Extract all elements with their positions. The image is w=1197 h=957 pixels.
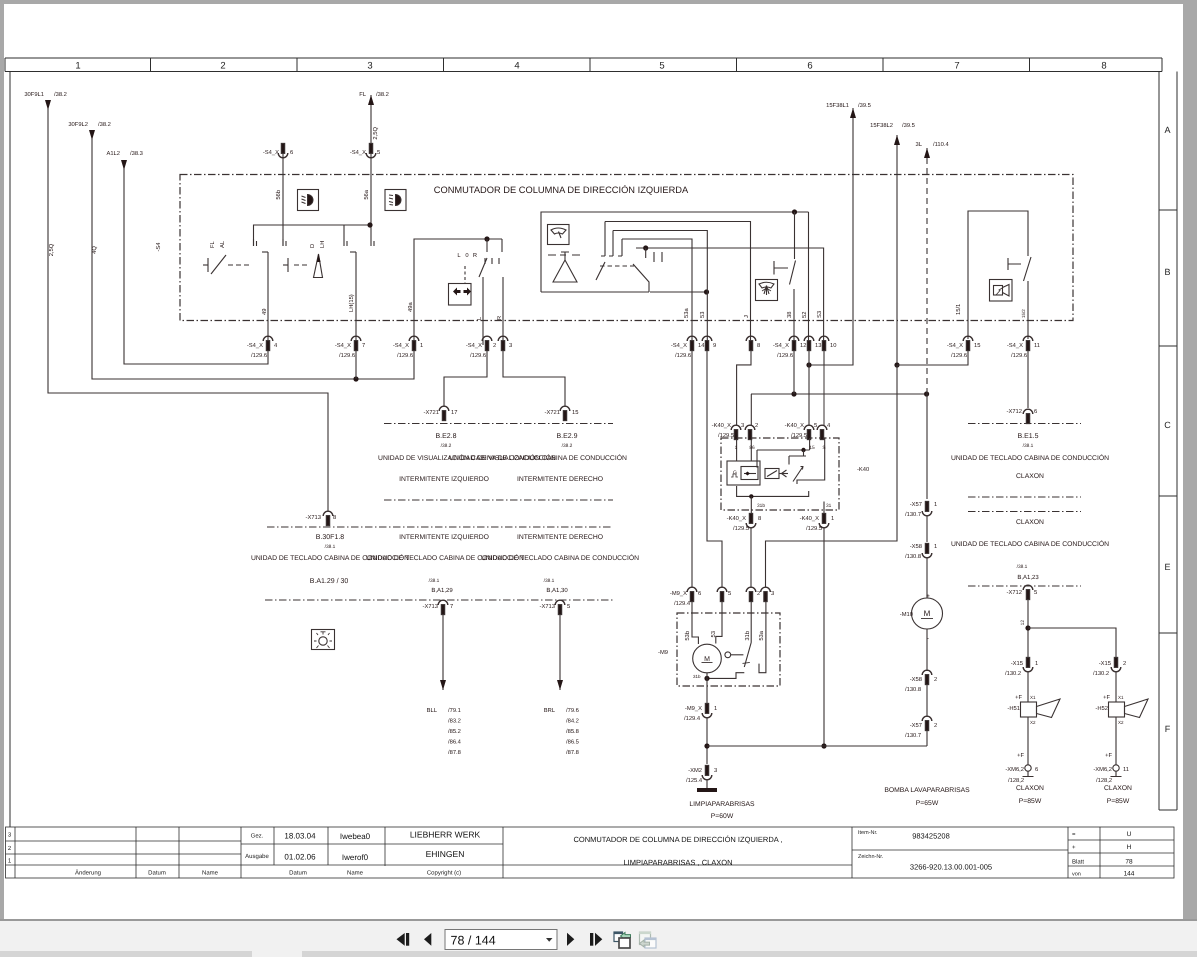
svg-text:+F: +F (1017, 753, 1024, 759)
svg-text:/38.1: /38.1 (325, 544, 336, 550)
svg-text:INTERMITENTE DERECHO: INTERMITENTE DERECHO (517, 476, 603, 483)
svg-text:-S4_X: -S4_X (393, 342, 409, 349)
svg-text:15/1: 15/1 (955, 304, 962, 315)
svg-text:B,A1,23: B,A1,23 (1017, 574, 1039, 581)
svg-text:INTERMITENTE DERECHO: INTERMITENTE DERECHO (517, 534, 603, 541)
svg-text:2,5Q: 2,5Q (372, 127, 379, 140)
svg-text:7: 7 (450, 604, 453, 610)
svg-text:15: 15 (809, 445, 815, 451)
svg-text:LIMPIAPARABRISAS , CLAXON: LIMPIAPARABRISAS , CLAXON (623, 858, 732, 867)
svg-text:Iwerof0: Iwerof0 (342, 853, 369, 862)
svg-text:52: 52 (801, 312, 808, 318)
svg-text:FL: FL (359, 92, 367, 98)
svg-text:-K40_X: -K40_X (712, 422, 731, 429)
svg-text:/38.1: /38.1 (544, 578, 555, 584)
svg-text:BRL: BRL (544, 708, 556, 714)
svg-text:/129.4: /129.4 (684, 715, 701, 722)
svg-text:10: 10 (830, 342, 836, 349)
svg-text:7: 7 (362, 343, 365, 349)
svg-text:5: 5 (1034, 590, 1037, 596)
svg-text:S: S (822, 445, 825, 451)
svg-text:UNIDAD DE VISUALIZACIÓN CABINA: UNIDAD DE VISUALIZACIÓN CABINA DE CONDUC… (449, 454, 627, 462)
svg-text:/39.5: /39.5 (902, 122, 915, 129)
svg-text:-S4_X: -S4_X (350, 149, 366, 156)
svg-text:11: 11 (1123, 767, 1129, 773)
svg-text:U: U (1127, 831, 1132, 838)
svg-text:983425208: 983425208 (912, 832, 950, 841)
svg-text:LIEBHERR WERK: LIEBHERR WERK (410, 830, 481, 840)
svg-text:53: 53 (699, 312, 706, 318)
svg-text:8: 8 (1101, 61, 1106, 72)
svg-text:/38.1: /38.1 (1023, 443, 1034, 449)
svg-text:78 / 144: 78 / 144 (451, 934, 496, 948)
svg-text:-X713: -X713 (306, 514, 321, 521)
svg-text:/129.6: /129.6 (339, 352, 355, 359)
svg-text:6: 6 (698, 590, 701, 597)
svg-text:/129.6: /129.6 (1011, 352, 1027, 359)
svg-text:+: + (926, 593, 930, 600)
svg-text:56a: 56a (363, 189, 370, 199)
svg-text:6: 6 (807, 61, 812, 72)
svg-text:4Q: 4Q (91, 246, 98, 254)
svg-text:3L: 3L (916, 141, 923, 148)
svg-text:/38.1: /38.1 (1017, 564, 1028, 570)
svg-text:/130.2: /130.2 (1005, 670, 1021, 677)
svg-text:5: 5 (814, 423, 817, 429)
svg-text:/83.2: /83.2 (448, 718, 461, 725)
svg-text:-X721: -X721 (424, 409, 439, 416)
svg-text:1: 1 (831, 516, 834, 522)
svg-text:1: 1 (420, 343, 423, 349)
svg-text:38: 38 (786, 312, 793, 318)
svg-text:-H51: -H51 (1007, 706, 1020, 712)
svg-text:2: 2 (934, 722, 937, 729)
svg-text:3266-920.13.00.001-005: 3266-920.13.00.001-005 (910, 863, 992, 872)
svg-text:A: A (1164, 125, 1170, 135)
svg-text:B: B (1164, 267, 1170, 277)
svg-text:11: 11 (1034, 343, 1040, 349)
svg-text:-X58: -X58 (910, 543, 922, 550)
svg-text:18.03.04: 18.03.04 (284, 832, 316, 841)
svg-text:Datum: Datum (148, 870, 166, 877)
svg-text:/38.1: /38.1 (429, 578, 440, 584)
svg-text:-XM2: -XM2 (688, 767, 702, 774)
svg-text:14: 14 (698, 343, 705, 349)
svg-text:/39.5: /39.5 (858, 102, 871, 109)
svg-text:53: 53 (710, 631, 717, 637)
svg-text:/129.4: /129.4 (674, 600, 691, 607)
svg-text:5: 5 (567, 604, 570, 610)
svg-text:2: 2 (934, 676, 937, 683)
svg-text:15: 15 (974, 343, 980, 349)
svg-text:/87.8: /87.8 (448, 749, 461, 756)
svg-text:31: 31 (826, 503, 832, 509)
svg-text:-K40_X: -K40_X (785, 422, 804, 429)
svg-text:-X712: -X712 (1007, 408, 1022, 415)
svg-text:1: 1 (735, 445, 738, 451)
svg-text:49: 49 (261, 309, 268, 315)
svg-text:/85.2: /85.2 (448, 728, 461, 735)
svg-text:-X712: -X712 (1007, 589, 1022, 596)
svg-text:3: 3 (741, 422, 744, 429)
svg-text:Iwebea0: Iwebea0 (340, 832, 371, 841)
svg-text:/129.5: /129.5 (791, 432, 807, 439)
svg-text:F: F (1165, 724, 1171, 734)
svg-text:1: 1 (75, 61, 80, 72)
svg-text:-M9_X: -M9_X (670, 590, 687, 597)
svg-text:/38.2: /38.2 (376, 91, 389, 98)
svg-text:B.A1.29 / 30: B.A1.29 / 30 (310, 577, 349, 585)
svg-text:2: 2 (220, 61, 225, 72)
svg-text:X2: X2 (1030, 720, 1036, 725)
svg-text:-M10: -M10 (900, 611, 913, 618)
svg-text:12: 12 (1020, 620, 1026, 626)
svg-text:17: 17 (451, 410, 457, 416)
svg-text:B.30F1.8: B.30F1.8 (316, 534, 345, 541)
svg-text:-X58: -X58 (910, 676, 922, 683)
svg-text:+F: +F (1103, 695, 1110, 701)
svg-text:/130.7: /130.7 (905, 732, 921, 739)
svg-text:-X15: -X15 (1011, 661, 1023, 667)
svg-text:B,A1,30: B,A1,30 (546, 587, 568, 594)
svg-text:INTERMITENTE IZQUIERDO: INTERMITENTE IZQUIERDO (399, 534, 489, 541)
svg-text:Item-Nr.: Item-Nr. (858, 830, 878, 836)
svg-text:1: 1 (934, 502, 937, 508)
svg-text:/129.5: /129.5 (718, 432, 734, 439)
svg-text:EHINGEN: EHINGEN (426, 849, 465, 859)
svg-text:-XM6,2: -XM6,2 (1005, 766, 1024, 773)
svg-text:49a: 49a (407, 302, 414, 312)
svg-text:31b: 31b (744, 631, 751, 641)
svg-text:30F9L1: 30F9L1 (24, 91, 44, 98)
svg-text:UNIDAD DE TECLADO CABINA DE CO: UNIDAD DE TECLADO CABINA DE CONDUCCIÓN (481, 554, 639, 562)
svg-text:8: 8 (333, 514, 336, 521)
svg-text:FL: FL (210, 240, 216, 248)
svg-text:LIMPIAPARABRISAS: LIMPIAPARABRISAS (689, 801, 755, 808)
svg-text:13: 13 (815, 342, 821, 349)
svg-text:-K40: -K40 (857, 466, 869, 473)
svg-text:-H52: -H52 (1095, 705, 1108, 712)
svg-text:M: M (924, 609, 931, 618)
svg-text:-S4_X: -S4_X (671, 342, 687, 349)
svg-text:3: 3 (367, 61, 372, 72)
svg-text:53a: 53a (758, 630, 765, 640)
svg-text:/129.6: /129.6 (777, 352, 793, 359)
svg-text:Gez.: Gez. (251, 833, 264, 840)
svg-text:P=65W: P=65W (916, 800, 939, 807)
svg-text:6: 6 (1034, 408, 1037, 415)
svg-text:C: C (1164, 420, 1171, 430)
svg-text:R: R (473, 253, 477, 259)
svg-text:AL: AL (220, 240, 226, 248)
svg-text:-S4_X: -S4_X (263, 149, 279, 156)
svg-text:+F: +F (1015, 695, 1022, 701)
svg-text:/129.5: /129.5 (806, 525, 822, 532)
svg-text:-X57: -X57 (910, 723, 922, 729)
svg-text:-S4_X: -S4_X (773, 342, 789, 349)
svg-text:-S4_X: -S4_X (947, 342, 963, 349)
svg-text:B.E2.9: B.E2.9 (556, 433, 577, 440)
svg-text:-S4_X: -S4_X (247, 342, 263, 349)
svg-text:/128,2: /128,2 (1008, 777, 1024, 784)
svg-text:/129.6: /129.6 (397, 352, 413, 359)
svg-text:=: = (1072, 832, 1076, 838)
svg-text:Änderung: Änderung (75, 869, 101, 877)
svg-text:6: 6 (1035, 766, 1038, 773)
svg-text:-K40_X: -K40_X (727, 515, 746, 522)
svg-text:/86.5: /86.5 (566, 739, 579, 746)
svg-text:-: - (927, 635, 929, 642)
svg-text:7: 7 (954, 61, 959, 72)
svg-text:P=60W: P=60W (711, 813, 734, 820)
svg-text:/85.8: /85.8 (566, 728, 579, 735)
svg-text:/87.8: /87.8 (566, 749, 579, 756)
svg-text:144: 144 (1124, 871, 1135, 878)
svg-text:31b: 31b (693, 674, 701, 679)
svg-text:BLL: BLL (427, 708, 438, 714)
svg-text:3: 3 (509, 342, 512, 349)
svg-text:CLAXON: CLAXON (1104, 785, 1132, 792)
svg-text:/129.6: /129.6 (951, 352, 967, 359)
svg-text:/125.4: /125.4 (686, 777, 703, 784)
svg-text:R: R (497, 316, 503, 320)
svg-text:von: von (1072, 872, 1081, 878)
svg-text:/130.8: /130.8 (905, 553, 921, 560)
svg-text:1: 1 (714, 706, 717, 712)
svg-text:31b: 31b (757, 503, 765, 509)
svg-text:/130.2: /130.2 (1093, 670, 1109, 677)
svg-text:+F: +F (1105, 753, 1112, 759)
svg-text:-X713: -X713 (540, 603, 555, 610)
svg-text:30F9L2: 30F9L2 (68, 121, 88, 128)
svg-text:M: M (704, 656, 710, 663)
svg-text:1: 1 (1035, 661, 1038, 667)
svg-text:5: 5 (728, 591, 731, 597)
svg-text:-S4_X: -S4_X (335, 342, 351, 349)
svg-text:BOMBA LAVAPARABRISAS: BOMBA LAVAPARABRISAS (884, 787, 970, 794)
svg-text:-X15: -X15 (1099, 661, 1111, 667)
svg-text:6: 6 (290, 149, 293, 156)
svg-text:53a: 53a (683, 308, 690, 318)
svg-text:P=85W: P=85W (1107, 798, 1130, 805)
svg-text:X1: X1 (1118, 695, 1124, 700)
svg-text:Datum: Datum (289, 870, 307, 877)
svg-text:-S4_X: -S4_X (1007, 342, 1023, 349)
svg-text:2: 2 (757, 590, 760, 597)
svg-text:B,A1,29: B,A1,29 (431, 587, 453, 594)
svg-text:5: 5 (377, 150, 380, 156)
svg-text:Name: Name (347, 870, 364, 877)
svg-text:15F38L2: 15F38L2 (870, 122, 893, 129)
svg-text:X1: X1 (1030, 695, 1036, 700)
svg-text:UNIDAD DE TECLADO CABINA DE CO: UNIDAD DE TECLADO CABINA DE CONDUCCIÓN (951, 540, 1109, 548)
svg-text:/129.5: /129.5 (733, 525, 749, 532)
svg-text:Zeichn-Nr.: Zeichn-Nr. (858, 854, 884, 860)
svg-text:0: 0 (465, 252, 468, 259)
svg-text:+: + (1072, 845, 1076, 851)
svg-text:CONMUTADOR DE COLUMNA DE DIREC: CONMUTADOR DE COLUMNA DE DIRECCIÓN IZQUI… (434, 184, 689, 195)
svg-text:-XM6,2: -XM6,2 (1093, 766, 1112, 773)
svg-text:J: J (744, 315, 750, 318)
svg-text:9: 9 (713, 342, 716, 349)
svg-text:Ausgabe: Ausgabe (245, 853, 269, 860)
svg-text:/110.4: /110.4 (933, 141, 949, 148)
svg-text:/130.8: /130.8 (905, 686, 921, 693)
svg-text:/79.6: /79.6 (566, 707, 579, 714)
svg-text:E: E (1164, 562, 1170, 572)
svg-text:/38.3: /38.3 (130, 150, 143, 157)
svg-text:2: 2 (755, 422, 758, 429)
svg-text:/38.2: /38.2 (98, 121, 111, 128)
svg-text:15/2: 15/2 (1021, 309, 1026, 318)
svg-text:5: 5 (659, 61, 664, 72)
svg-text:78: 78 (1125, 859, 1133, 866)
svg-text:15: 15 (572, 410, 578, 416)
svg-text:INTERMITENTE IZQUIERDO: INTERMITENTE IZQUIERDO (399, 476, 489, 483)
svg-text:B.E1.5: B.E1.5 (1017, 433, 1038, 440)
svg-text:-X713: -X713 (423, 603, 438, 610)
svg-text:D: D (310, 244, 316, 248)
svg-text:-X721: -X721 (545, 409, 560, 416)
svg-text:CLAXON: CLAXON (1016, 473, 1044, 480)
svg-text:UNIDAD DE TECLADO CABINA DE CO: UNIDAD DE TECLADO CABINA DE CONDUCCIÓN (951, 454, 1109, 462)
svg-text:-S4: -S4 (155, 242, 162, 252)
svg-text:-S4_X: -S4_X (466, 342, 482, 349)
svg-text:/129.6: /129.6 (251, 352, 267, 359)
svg-text:1: 1 (934, 544, 937, 550)
svg-text:H: H (1127, 844, 1132, 851)
svg-text:/84.2: /84.2 (566, 718, 579, 725)
svg-text:86: 86 (749, 445, 755, 451)
svg-text:/128,2: /128,2 (1096, 777, 1112, 784)
svg-text:/130.7: /130.7 (905, 511, 921, 518)
svg-text:Name: Name (202, 870, 219, 877)
svg-text:P=85W: P=85W (1019, 798, 1042, 805)
svg-text:/79.1: /79.1 (448, 707, 461, 714)
svg-text:G: G (733, 470, 737, 476)
svg-text:CLAXON: CLAXON (1016, 785, 1044, 792)
svg-text:S3: S3 (816, 311, 823, 318)
svg-text:2: 2 (493, 342, 496, 349)
svg-text:-X57: -X57 (910, 502, 922, 508)
svg-text:56b: 56b (275, 190, 282, 200)
svg-text:53b: 53b (684, 631, 691, 641)
svg-text:01.02.06: 01.02.06 (284, 853, 316, 862)
svg-text:LH(15): LH(15) (348, 294, 355, 312)
svg-text:2: 2 (1123, 660, 1126, 667)
svg-text:8: 8 (757, 342, 760, 349)
svg-text:/38.2: /38.2 (562, 443, 573, 449)
svg-text:2,5Q: 2,5Q (48, 243, 55, 256)
svg-text:/38.2: /38.2 (441, 443, 452, 449)
svg-text:/86.4: /86.4 (448, 739, 462, 746)
svg-text:/129.6: /129.6 (470, 352, 486, 359)
svg-text:-M9_X: -M9_X (685, 705, 702, 712)
svg-text:4: 4 (514, 61, 519, 72)
svg-text:/38.2: /38.2 (54, 91, 67, 98)
svg-text:B.E2.8: B.E2.8 (435, 433, 456, 440)
svg-text:LH: LH (320, 241, 326, 248)
svg-text:Copyright (c): Copyright (c) (427, 870, 461, 877)
svg-text:3: 3 (771, 590, 774, 597)
svg-text:CLAXON: CLAXON (1016, 519, 1044, 526)
svg-text:3: 3 (714, 767, 717, 774)
svg-text:-M9: -M9 (658, 649, 668, 656)
svg-text:12: 12 (800, 342, 806, 349)
svg-text:8: 8 (758, 515, 761, 522)
svg-text:CONMUTADOR DE COLUMNA DE DIREC: CONMUTADOR DE COLUMNA DE DIRECCIÓN IZQUI… (573, 835, 782, 844)
svg-text:/129.6: /129.6 (675, 352, 691, 359)
svg-text:A1L2: A1L2 (106, 150, 120, 157)
svg-text:15F38L1: 15F38L1 (826, 102, 849, 109)
svg-text:-K40_X: -K40_X (800, 515, 819, 522)
svg-text:Blatt: Blatt (1072, 859, 1084, 866)
svg-text:X2: X2 (1118, 720, 1124, 725)
